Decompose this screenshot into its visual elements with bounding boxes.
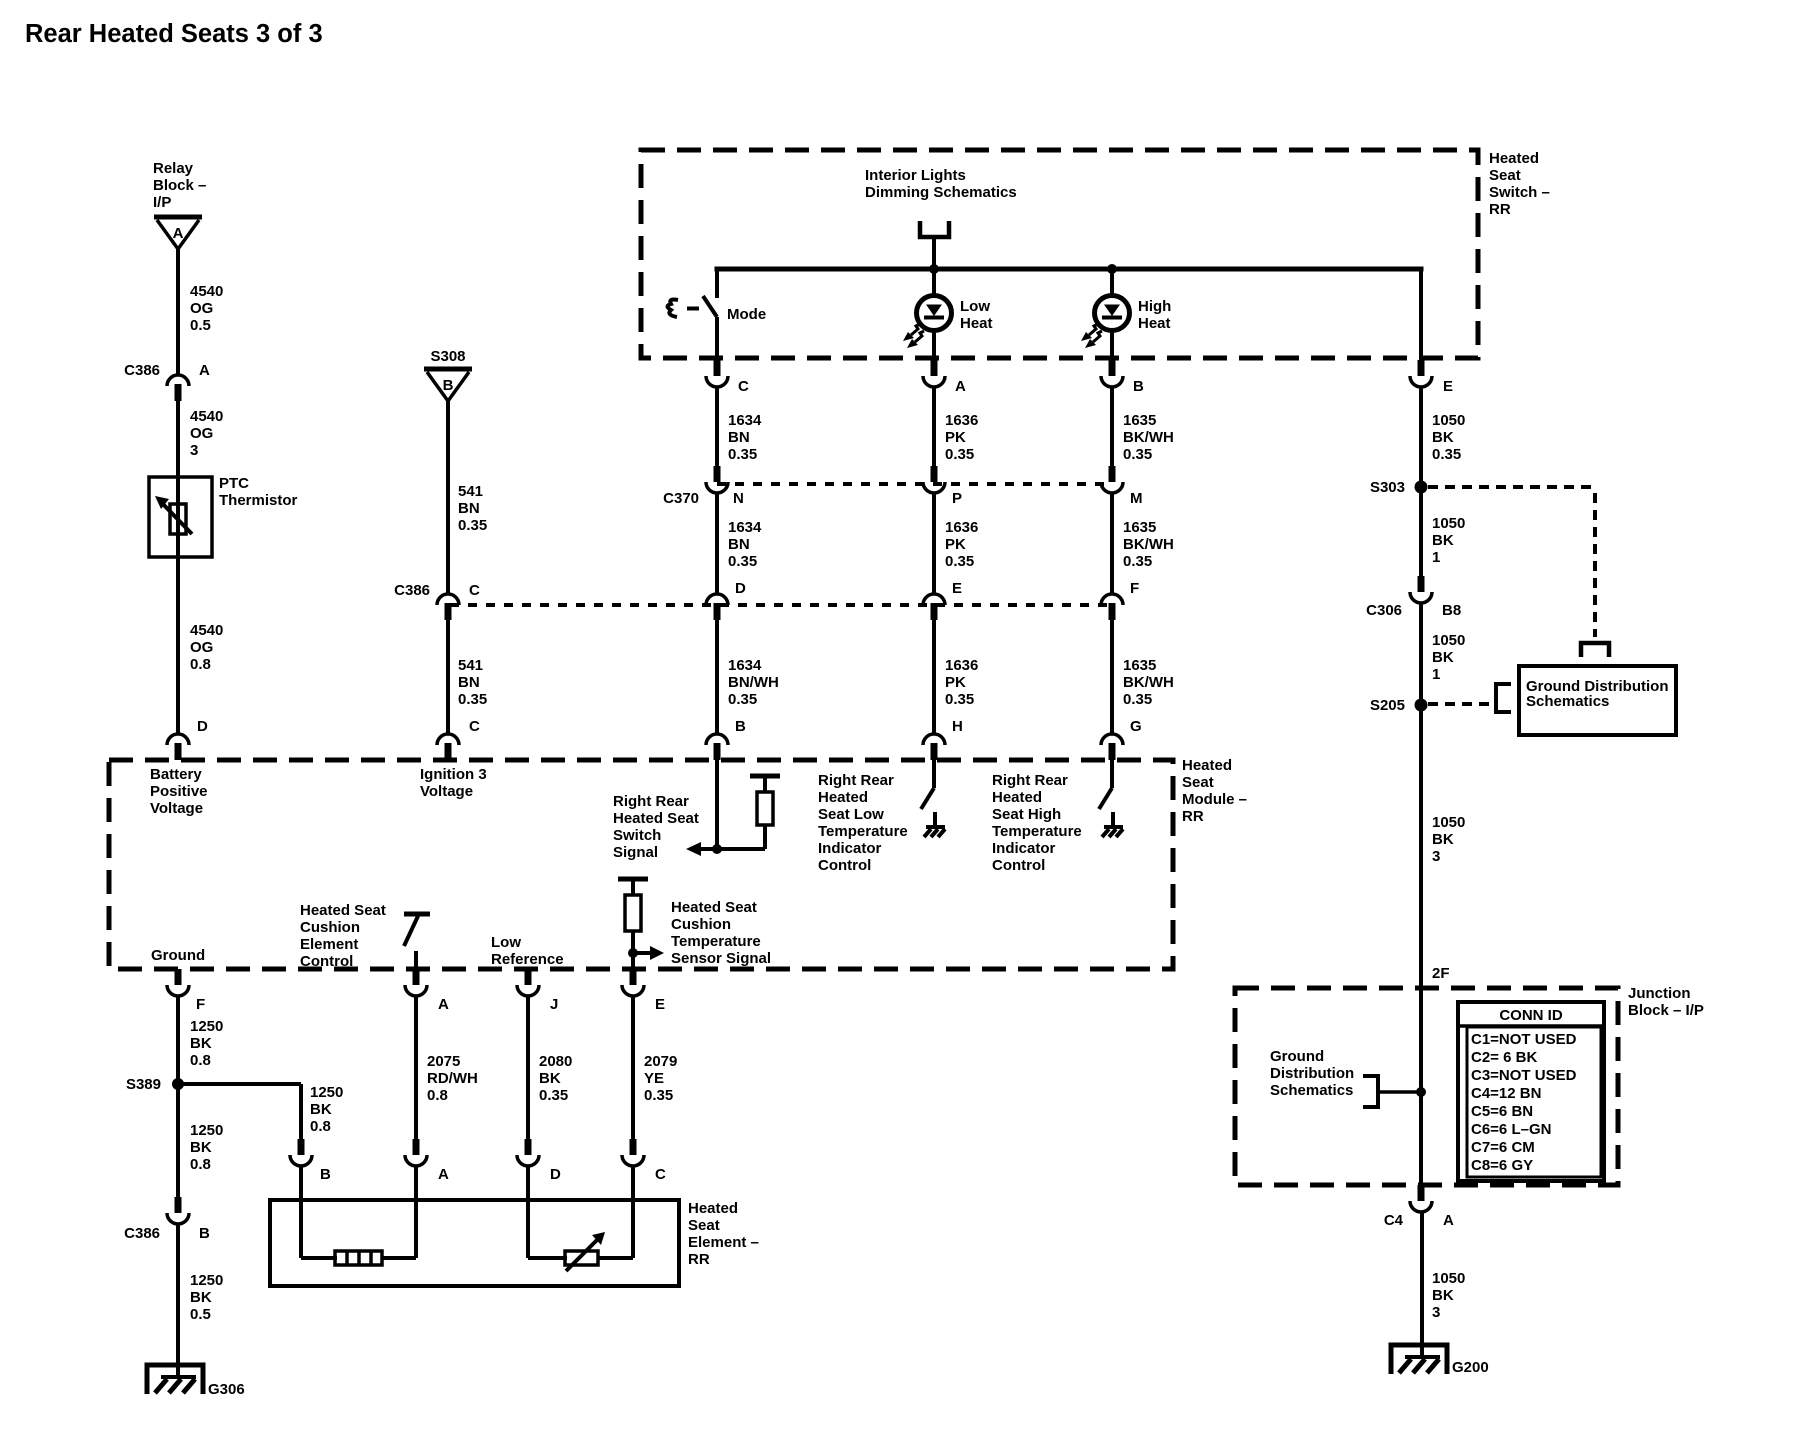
svg-text:Seat: Seat <box>1182 774 1214 791</box>
svg-text:1050: 1050 <box>1432 814 1465 831</box>
svg-text:BN: BN <box>458 500 480 517</box>
svg-text:C386: C386 <box>124 362 160 379</box>
svg-text:Heated Seat: Heated Seat <box>300 902 386 919</box>
svg-text:C8=6 GY: C8=6 GY <box>1471 1157 1533 1174</box>
svg-text:1050: 1050 <box>1432 412 1465 429</box>
svg-text:1635: 1635 <box>1123 519 1156 536</box>
svg-text:S308: S308 <box>430 348 465 365</box>
svg-text:0.35: 0.35 <box>458 691 487 708</box>
svg-text:Seat: Seat <box>1489 167 1521 184</box>
svg-text:1050: 1050 <box>1432 515 1465 532</box>
svg-text:C386: C386 <box>394 582 430 599</box>
svg-text:C2= 6 BK: C2= 6 BK <box>1471 1049 1537 1066</box>
svg-text:0.35: 0.35 <box>1123 446 1152 463</box>
svg-text:Switch: Switch <box>613 827 661 844</box>
svg-text:Seat: Seat <box>688 1217 720 1234</box>
svg-text:1250: 1250 <box>190 1272 223 1289</box>
svg-text:S303: S303 <box>1370 479 1405 496</box>
svg-text:Reference: Reference <box>491 951 564 968</box>
svg-text:4540: 4540 <box>190 622 223 639</box>
svg-text:1634: 1634 <box>728 657 762 674</box>
svg-text:0.8: 0.8 <box>427 1087 448 1104</box>
svg-text:0.35: 0.35 <box>1432 446 1461 463</box>
svg-text:C6=6 L–GN: C6=6 L–GN <box>1471 1121 1551 1138</box>
svg-text:C: C <box>469 582 480 599</box>
svg-text:Heat: Heat <box>1138 315 1171 332</box>
svg-text:Block –: Block – <box>153 177 206 194</box>
svg-text:Heated: Heated <box>992 789 1042 806</box>
svg-text:Ground: Ground <box>151 947 205 964</box>
svg-text:4540: 4540 <box>190 408 223 425</box>
svg-text:C370: C370 <box>663 490 699 507</box>
svg-text:1250: 1250 <box>190 1018 223 1035</box>
svg-text:RD/WH: RD/WH <box>427 1070 478 1087</box>
svg-text:Schematics: Schematics <box>1526 693 1609 710</box>
svg-text:B: B <box>320 1166 331 1183</box>
svg-text:1634: 1634 <box>728 412 762 429</box>
svg-text:0.8: 0.8 <box>190 1052 211 1069</box>
svg-text:BN: BN <box>728 429 750 446</box>
svg-text:0.5: 0.5 <box>190 317 211 334</box>
svg-text:J: J <box>550 996 558 1013</box>
svg-text:1050: 1050 <box>1432 1270 1465 1287</box>
svg-text:Heated: Heated <box>1182 757 1232 774</box>
svg-text:0.35: 0.35 <box>728 691 757 708</box>
svg-text:C4=12 BN: C4=12 BN <box>1471 1085 1541 1102</box>
svg-text:A: A <box>173 225 184 242</box>
svg-text:1635: 1635 <box>1123 412 1156 429</box>
svg-text:RR: RR <box>688 1251 710 1268</box>
svg-text:Heated: Heated <box>1489 150 1539 167</box>
svg-text:0.35: 0.35 <box>644 1087 673 1104</box>
svg-text:Heated: Heated <box>818 789 868 806</box>
svg-text:0.35: 0.35 <box>945 553 974 570</box>
svg-text:2080: 2080 <box>539 1053 572 1070</box>
svg-text:Temperature: Temperature <box>671 933 761 950</box>
svg-text:RR: RR <box>1489 201 1511 218</box>
svg-text:BK: BK <box>190 1035 212 1052</box>
svg-text:Heat: Heat <box>960 315 993 332</box>
svg-text:541: 541 <box>458 657 483 674</box>
svg-text:B: B <box>199 1225 210 1242</box>
svg-text:A: A <box>438 996 449 1013</box>
svg-text:BK/WH: BK/WH <box>1123 674 1174 691</box>
svg-text:Seat Low: Seat Low <box>818 806 884 823</box>
svg-text:OG: OG <box>190 639 213 656</box>
svg-text:541: 541 <box>458 483 483 500</box>
svg-text:1250: 1250 <box>310 1084 343 1101</box>
svg-text:S205: S205 <box>1370 697 1405 714</box>
svg-text:0.35: 0.35 <box>945 691 974 708</box>
svg-text:Rear Heated Seats 3 of 3: Rear Heated Seats 3 of 3 <box>25 20 323 48</box>
svg-text:0.8: 0.8 <box>190 656 211 673</box>
svg-text:E: E <box>952 580 962 597</box>
svg-text:0.8: 0.8 <box>190 1156 211 1173</box>
svg-text:Right Rear: Right Rear <box>818 772 894 789</box>
svg-text:Distribution: Distribution <box>1270 1065 1354 1082</box>
svg-text:0.35: 0.35 <box>1123 691 1152 708</box>
svg-text:Signal: Signal <box>613 844 658 861</box>
svg-text:1: 1 <box>1432 549 1440 566</box>
svg-text:Thermistor: Thermistor <box>219 492 298 509</box>
svg-text:RR: RR <box>1182 808 1204 825</box>
svg-text:2079: 2079 <box>644 1053 677 1070</box>
svg-text:1636: 1636 <box>945 657 978 674</box>
svg-text:Temperature: Temperature <box>818 823 908 840</box>
svg-text:A: A <box>955 378 966 395</box>
svg-text:C306: C306 <box>1366 602 1402 619</box>
svg-text:BK: BK <box>539 1070 561 1087</box>
svg-text:0.35: 0.35 <box>539 1087 568 1104</box>
svg-text:Schematics: Schematics <box>1270 1082 1353 1099</box>
svg-text:BN: BN <box>458 674 480 691</box>
svg-text:E: E <box>1443 378 1453 395</box>
svg-text:Element: Element <box>300 936 358 953</box>
svg-text:Low: Low <box>960 298 990 315</box>
svg-text:Right Rear: Right Rear <box>613 793 689 810</box>
svg-text:Cushion: Cushion <box>300 919 360 936</box>
svg-text:0.35: 0.35 <box>728 553 757 570</box>
svg-text:Positive: Positive <box>150 783 208 800</box>
svg-text:Switch –: Switch – <box>1489 184 1550 201</box>
svg-text:Dimming Schematics: Dimming Schematics <box>865 184 1017 201</box>
svg-text:1636: 1636 <box>945 412 978 429</box>
svg-text:Heated: Heated <box>688 1200 738 1217</box>
svg-text:Cushion: Cushion <box>671 916 731 933</box>
svg-text:C: C <box>655 1166 666 1183</box>
svg-text:G306: G306 <box>208 1381 245 1398</box>
svg-text:PK: PK <box>945 536 966 553</box>
svg-text:BK: BK <box>1432 429 1454 446</box>
svg-text:High: High <box>1138 298 1171 315</box>
svg-text:Low: Low <box>491 934 521 951</box>
svg-text:Temperature: Temperature <box>992 823 1082 840</box>
svg-text:Seat High: Seat High <box>992 806 1061 823</box>
svg-text:Ground: Ground <box>1270 1048 1324 1065</box>
svg-text:Indicator: Indicator <box>992 840 1056 857</box>
svg-text:Block – I/P: Block – I/P <box>1628 1002 1704 1019</box>
svg-text:Control: Control <box>300 953 353 970</box>
svg-text:C4: C4 <box>1384 1212 1404 1229</box>
svg-text:B: B <box>443 377 454 394</box>
svg-text:BK: BK <box>190 1289 212 1306</box>
svg-text:0.35: 0.35 <box>945 446 974 463</box>
svg-text:Ignition 3: Ignition 3 <box>420 766 487 783</box>
svg-text:YE: YE <box>644 1070 664 1087</box>
svg-text:B8: B8 <box>1442 602 1461 619</box>
svg-text:C1=NOT USED: C1=NOT USED <box>1471 1031 1577 1048</box>
svg-text:Heated Seat: Heated Seat <box>613 810 699 827</box>
svg-text:H: H <box>952 718 963 735</box>
svg-text:2F: 2F <box>1432 965 1450 982</box>
svg-text:Mode: Mode <box>727 306 766 323</box>
svg-text:3: 3 <box>190 442 198 459</box>
svg-text:G: G <box>1130 718 1142 735</box>
svg-text:P: P <box>952 490 962 507</box>
svg-text:BK/WH: BK/WH <box>1123 429 1174 446</box>
svg-text:Voltage: Voltage <box>420 783 473 800</box>
svg-text:BK: BK <box>1432 649 1454 666</box>
svg-text:3: 3 <box>1432 848 1440 865</box>
svg-text:OG: OG <box>190 300 213 317</box>
svg-text:D: D <box>550 1166 561 1183</box>
svg-text:B: B <box>1133 378 1144 395</box>
svg-text:Sensor Signal: Sensor Signal <box>671 950 771 967</box>
svg-text:BK/WH: BK/WH <box>1123 536 1174 553</box>
svg-text:S389: S389 <box>126 1076 161 1093</box>
svg-text:A: A <box>199 362 210 379</box>
svg-text:C386: C386 <box>124 1225 160 1242</box>
svg-text:Element –: Element – <box>688 1234 759 1251</box>
svg-text:A: A <box>438 1166 449 1183</box>
svg-text:M: M <box>1130 490 1143 507</box>
svg-text:0.5: 0.5 <box>190 1306 211 1323</box>
svg-text:F: F <box>196 996 205 1013</box>
svg-text:D: D <box>735 580 746 597</box>
svg-text:BK: BK <box>1432 532 1454 549</box>
svg-text:Interior Lights: Interior Lights <box>865 167 966 184</box>
svg-text:C: C <box>469 718 480 735</box>
svg-text:0.35: 0.35 <box>458 517 487 534</box>
svg-text:B: B <box>735 718 746 735</box>
svg-text:4540: 4540 <box>190 283 223 300</box>
svg-text:C7=6 CM: C7=6 CM <box>1471 1139 1535 1156</box>
svg-text:BK: BK <box>190 1139 212 1156</box>
svg-text:1: 1 <box>1432 666 1440 683</box>
svg-text:N: N <box>733 490 744 507</box>
svg-text:0.35: 0.35 <box>1123 553 1152 570</box>
svg-text:1635: 1635 <box>1123 657 1156 674</box>
svg-text:2075: 2075 <box>427 1053 460 1070</box>
svg-text:Control: Control <box>992 857 1045 874</box>
svg-text:C5=6 BN: C5=6 BN <box>1471 1103 1533 1120</box>
svg-text:BK: BK <box>310 1101 332 1118</box>
svg-text:PK: PK <box>945 674 966 691</box>
svg-text:Control: Control <box>818 857 871 874</box>
svg-text:0.35: 0.35 <box>728 446 757 463</box>
svg-text:F: F <box>1130 580 1139 597</box>
svg-text:Right Rear: Right Rear <box>992 772 1068 789</box>
svg-text:0.8: 0.8 <box>310 1118 331 1135</box>
svg-text:PK: PK <box>945 429 966 446</box>
svg-text:Voltage: Voltage <box>150 800 203 817</box>
svg-text:E: E <box>655 996 665 1013</box>
svg-text:D: D <box>197 718 208 735</box>
svg-text:1250: 1250 <box>190 1122 223 1139</box>
svg-text:BN: BN <box>728 536 750 553</box>
svg-text:3: 3 <box>1432 1304 1440 1321</box>
svg-text:A: A <box>1443 1212 1454 1229</box>
svg-text:G200: G200 <box>1452 1359 1489 1376</box>
svg-text:1634: 1634 <box>728 519 762 536</box>
svg-text:PTC: PTC <box>219 475 249 492</box>
svg-text:1636: 1636 <box>945 519 978 536</box>
svg-text:1050: 1050 <box>1432 632 1465 649</box>
svg-text:Heated Seat: Heated Seat <box>671 899 757 916</box>
svg-text:BK: BK <box>1432 1287 1454 1304</box>
svg-text:BK: BK <box>1432 831 1454 848</box>
svg-text:I/P: I/P <box>153 194 171 211</box>
svg-text:C: C <box>738 378 749 395</box>
svg-text:Battery: Battery <box>150 766 202 783</box>
svg-text:CONN ID: CONN ID <box>1499 1007 1563 1024</box>
svg-text:BN/WH: BN/WH <box>728 674 779 691</box>
svg-text:Junction: Junction <box>1628 985 1691 1002</box>
svg-text:OG: OG <box>190 425 213 442</box>
svg-text:C3=NOT USED: C3=NOT USED <box>1471 1067 1577 1084</box>
svg-text:Indicator: Indicator <box>818 840 882 857</box>
svg-text:Relay: Relay <box>153 160 194 177</box>
svg-text:Module –: Module – <box>1182 791 1247 808</box>
